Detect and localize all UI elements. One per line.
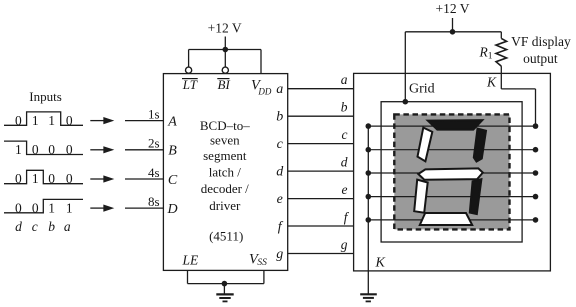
svg-text:0: 0 (15, 200, 22, 215)
svg-text:D: D (166, 202, 177, 217)
svg-text:b: b (48, 219, 55, 234)
svg-text:d: d (15, 219, 22, 234)
svg-text:(4511): (4511) (209, 228, 243, 243)
svg-text:VDD: VDD (251, 78, 272, 97)
svg-text:0: 0 (66, 171, 73, 186)
svg-text:+12 V: +12 V (208, 21, 242, 36)
svg-text:c: c (342, 127, 348, 142)
svg-text:a: a (64, 219, 71, 234)
svg-text:1: 1 (32, 171, 39, 186)
svg-text:output: output (523, 51, 558, 66)
svg-text:e: e (277, 192, 283, 207)
svg-text:b: b (341, 100, 348, 115)
svg-text:e: e (342, 182, 348, 197)
svg-text:f: f (344, 210, 350, 225)
svg-text:1: 1 (48, 113, 55, 128)
svg-text:8s: 8s (148, 194, 160, 209)
svg-text:1: 1 (15, 142, 22, 157)
svg-text:1: 1 (48, 200, 55, 215)
svg-text:2s: 2s (148, 136, 160, 151)
svg-text:A: A (167, 115, 177, 130)
svg-text:0: 0 (32, 200, 39, 215)
svg-text:R1: R1 (479, 45, 493, 62)
svg-text:decoder /: decoder / (201, 181, 249, 196)
svg-text:Inputs: Inputs (29, 89, 62, 104)
svg-text:1: 1 (66, 200, 73, 215)
svg-text:4s: 4s (148, 165, 160, 180)
svg-text:0: 0 (66, 113, 73, 128)
svg-text:+12 V: +12 V (436, 1, 470, 16)
svg-text:driver: driver (209, 198, 241, 213)
svg-text:C: C (168, 173, 178, 188)
svg-text:f: f (278, 220, 284, 235)
svg-text:0: 0 (32, 142, 39, 157)
svg-text:0: 0 (48, 142, 55, 157)
svg-text:latch /: latch / (209, 164, 242, 179)
svg-text:d: d (341, 155, 348, 170)
svg-text:B: B (168, 144, 177, 159)
svg-text:0: 0 (15, 171, 22, 186)
svg-text:g: g (276, 247, 283, 262)
svg-text:1: 1 (32, 113, 39, 128)
svg-text:VF display: VF display (511, 34, 571, 49)
svg-text:c: c (32, 219, 38, 234)
svg-text:K: K (486, 75, 497, 90)
svg-text:g: g (341, 237, 348, 252)
svg-text:1s: 1s (148, 106, 160, 121)
svg-text:LE: LE (182, 252, 200, 267)
svg-text:BCD–to–: BCD–to– (200, 118, 250, 133)
svg-text:c: c (277, 137, 284, 152)
svg-text:0: 0 (48, 171, 55, 186)
svg-text:VSS: VSS (249, 251, 267, 268)
svg-text:seven: seven (210, 133, 240, 148)
svg-text:a: a (276, 82, 283, 97)
svg-text:d: d (276, 165, 284, 180)
svg-text:Grid: Grid (409, 82, 435, 97)
svg-text:b: b (276, 110, 283, 125)
svg-text:a: a (341, 72, 348, 87)
svg-text:K: K (375, 256, 386, 271)
svg-text:0: 0 (15, 113, 22, 128)
svg-text:segment: segment (203, 148, 247, 163)
svg-text:0: 0 (66, 142, 73, 157)
